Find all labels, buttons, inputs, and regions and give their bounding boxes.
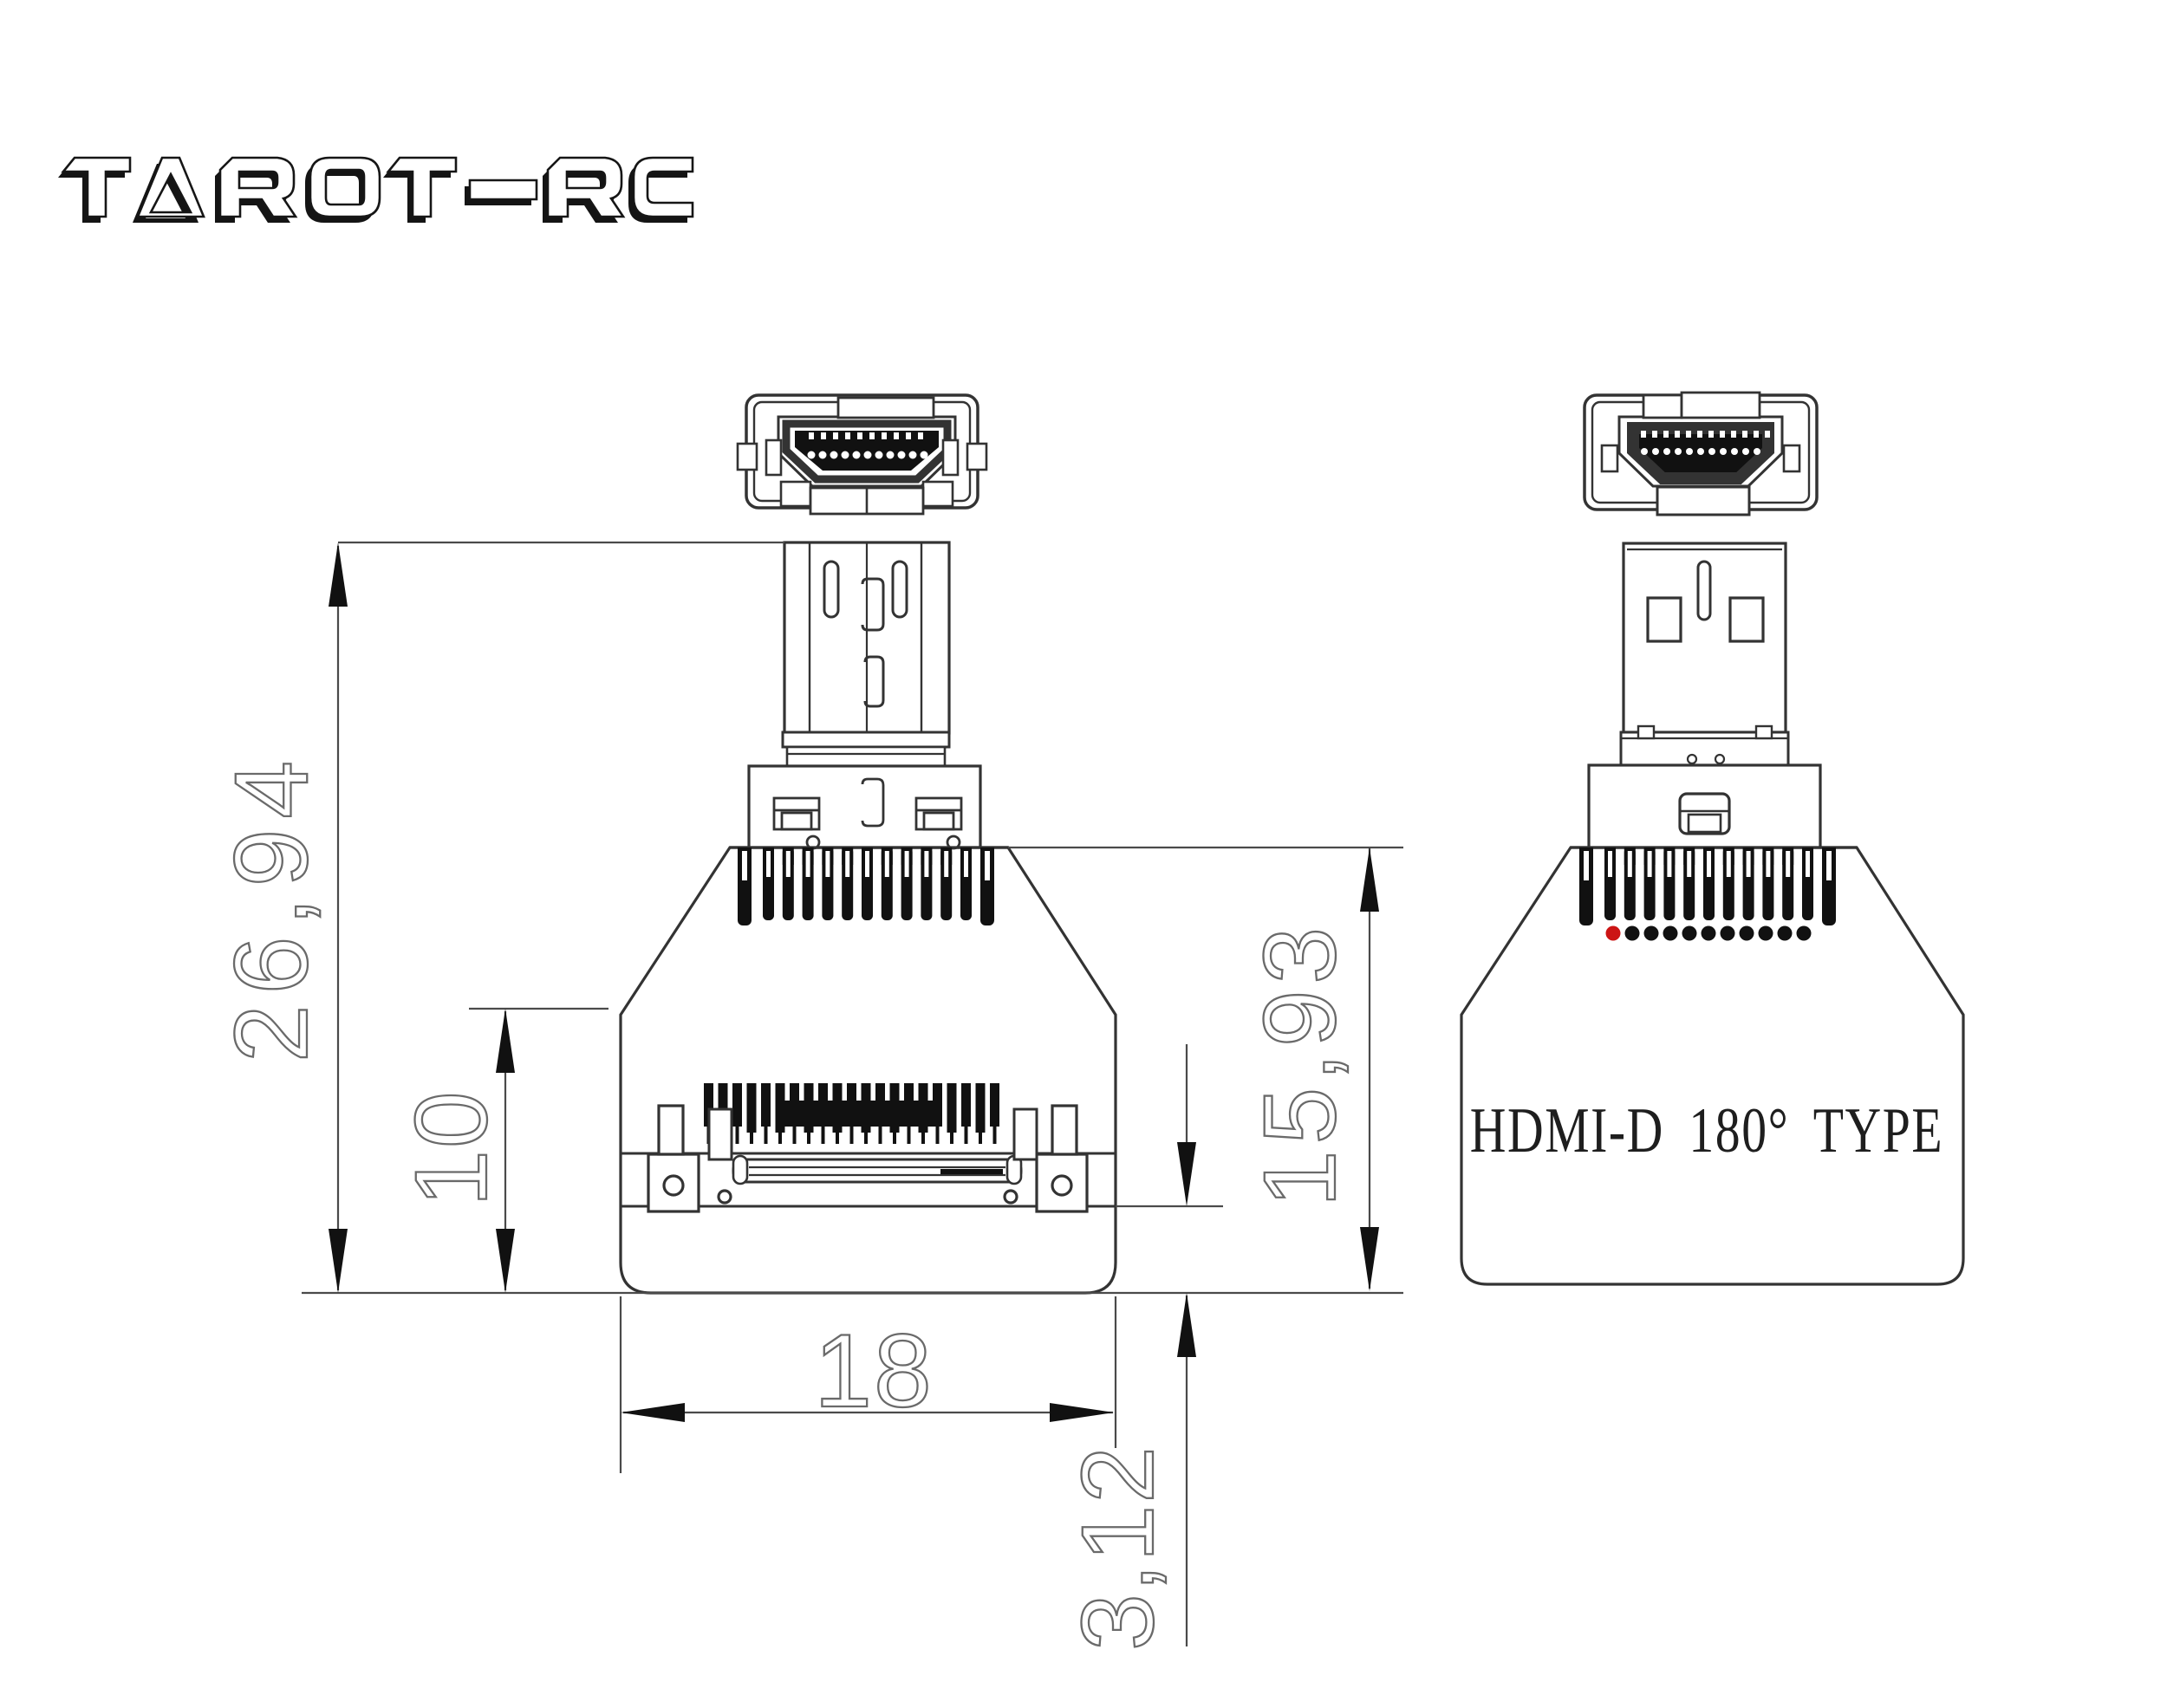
svg-text:HDMI-D 180° TYPE: HDMI-D 180° TYPE bbox=[1470, 1095, 1944, 1166]
svg-text:3,12: 3,12 bbox=[1061, 1445, 1175, 1651]
svg-text:10: 10 bbox=[394, 1089, 509, 1206]
svg-text:18: 18 bbox=[814, 1313, 933, 1429]
svg-text:15,93: 15,93 bbox=[1243, 921, 1357, 1207]
svg-text:26,94: 26,94 bbox=[213, 750, 329, 1062]
